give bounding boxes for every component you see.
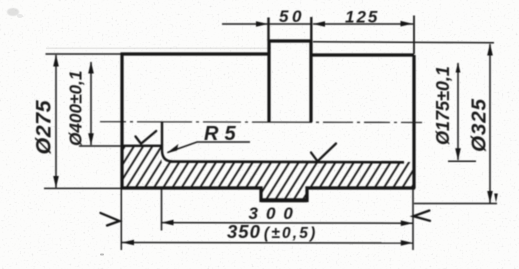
svg-text:50: 50 [279,7,305,26]
svg-text:350(±0,5): 350(±0,5) [227,221,317,242]
svg-text:R5: R5 [204,123,242,145]
svg-text:125: 125 [345,8,379,27]
svg-text:Ø400±0,1: Ø400±0,1 [66,71,86,146]
svg-text:Ø325: Ø325 [468,98,491,152]
svg-text:Ø175±0,1: Ø175±0,1 [433,66,453,145]
svg-text:Ø275: Ø275 [32,99,56,154]
